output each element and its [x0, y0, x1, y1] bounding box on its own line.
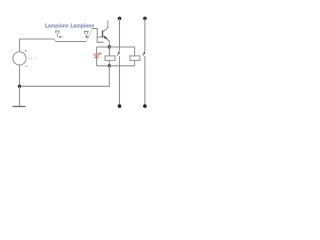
- switch S1 plunger cap: [55, 31, 60, 37]
- node dot at emitter junction: [108, 45, 111, 48]
- wire source bottom to ground node: [19, 65, 21, 86]
- switch S2 plunger cap: [84, 32, 89, 38]
- collector lead: [103, 20, 108, 32]
- switch S1 arrow: [60, 36, 62, 38]
- base bar: [102, 30, 104, 37]
- relay contact 2 lever: [143, 50, 145, 56]
- relay contact 2 arrow: [143, 52, 145, 55]
- node dot bottom of coil K1: [108, 64, 111, 67]
- wire branch to base: [97, 36, 102, 38]
- LED D1 (red): [94, 52, 102, 58]
- terminal dot contact 2 top: [143, 17, 147, 21]
- terminal dot contact 1 bottom: [118, 104, 122, 108]
- transistor Q1 (NPN): [103, 20, 110, 47]
- plus mark: [25, 50, 27, 52]
- wire bottom rail of relay loop: [97, 65, 135, 67]
- svg-text:Lampione: Lampione: [71, 24, 95, 30]
- svg-text:12 V: 12 V: [28, 56, 37, 61]
- switch S2 arrow: [86, 36, 88, 38]
- svg-text:Lampione: Lampione: [45, 24, 69, 30]
- wire relay contact 2 lower: [144, 56, 146, 106]
- wire top rail of relay loop: [97, 46, 135, 48]
- wire from source top to switch S1: [20, 39, 55, 52]
- terminal dot contact 2 bottom: [143, 104, 147, 108]
- wire coil K2 to bottom rail: [134, 60, 136, 65]
- emitter arrow: [104, 36, 108, 39]
- relay coil K1: [105, 56, 115, 61]
- wire loop to ground rail: [20, 66, 110, 87]
- wire relay contact 1 lower: [119, 56, 121, 106]
- emitter lead: [103, 36, 110, 47]
- relay contact 1 lever: [117, 50, 119, 56]
- ground: [13, 106, 26, 108]
- relay coil K2: [130, 56, 140, 61]
- minus mark: [25, 65, 28, 67]
- wire top rail to coil K2: [134, 47, 136, 56]
- wire between S1 and S2: [56, 41, 87, 43]
- switch S2 lever (open): [87, 29, 93, 41]
- wire relay contact 2 upper: [144, 18, 146, 50]
- switch S1 lever: [54, 39, 55, 42]
- node dot ground junction: [18, 85, 21, 88]
- voltage source V1: [13, 52, 26, 65]
- terminal dot contact 1 top: [118, 17, 122, 21]
- wire relay contact 1 upper: [119, 18, 121, 50]
- wire LED branch down: [96, 47, 98, 66]
- wire coil K1 to bottom rail: [108, 60, 110, 65]
- relay contact 1 arrow: [118, 52, 120, 55]
- wire emitter node to relay coil K1: [108, 47, 110, 56]
- wire ground stub: [19, 86, 21, 106]
- wire S2 to transistor base (jog): [92, 29, 104, 43]
